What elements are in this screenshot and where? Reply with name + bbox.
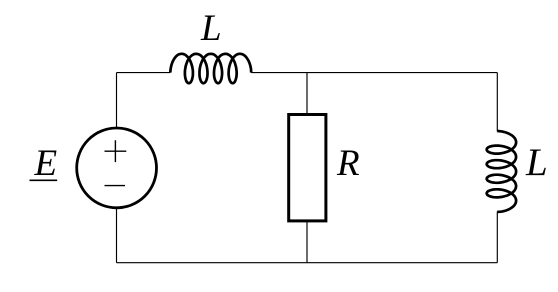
wire middle branch upper (node to resistor) [306, 73, 308, 115]
voltage source E circle [77, 128, 157, 208]
wire left branch lower [116, 209, 118, 263]
inductor L right coil [487, 131, 516, 212]
label L (right inductor) [526, 140, 548, 185]
label E (source) [35, 142, 58, 185]
wire right branch lower [496, 212, 498, 263]
label R (resistor) [337, 142, 360, 185]
resistor R body [289, 115, 326, 221]
underline of label E [30, 179, 58, 181]
wire top-left horizontal segment [117, 72, 171, 74]
wire middle branch lower (resistor to node) [306, 220, 308, 263]
inductor L top coil [170, 54, 251, 83]
wire bottom [117, 262, 498, 264]
minus sign of source [105, 185, 126, 187]
wire right branch upper [496, 73, 498, 132]
label L (top inductor) [201, 7, 222, 50]
wire top-right horizontal segment [251, 72, 497, 74]
plus sign of source [105, 140, 127, 162]
wire left branch upper [116, 73, 118, 128]
